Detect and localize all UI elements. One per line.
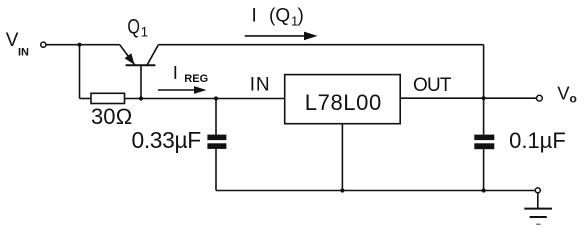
label C1 value 0.33uF: [132, 127, 202, 153]
svg-text:IN: IN: [18, 46, 29, 58]
svg-text:o: o: [570, 91, 577, 105]
wire Q1 collector top rail: [158, 44, 483, 46]
svg-text:): ): [298, 6, 304, 27]
wire capacitor C2 to ground rail: [483, 149, 485, 190]
svg-text:V: V: [557, 82, 570, 103]
label current I(Q1): [252, 6, 304, 29]
ground: [524, 209, 552, 225]
svg-text:Q: Q: [127, 15, 140, 38]
wire to resistor R1: [80, 98, 92, 100]
node F junction dot: [482, 188, 486, 192]
node Vo terminal: [537, 95, 543, 101]
wire Q1 base down to node B: [140, 65, 142, 98]
label Vo: [557, 82, 577, 105]
svg-text:0.33µF: 0.33µF: [132, 127, 202, 153]
svg-text:30Ω: 30Ω: [91, 104, 132, 129]
wire ground rail: [216, 190, 535, 192]
capacitor C1 plates: [207, 135, 226, 149]
svg-text:L78L00: L78L00: [305, 90, 382, 115]
node B junction dot: [139, 96, 143, 100]
resistor R1 body: [91, 93, 125, 103]
svg-text:0.1µF: 0.1µF: [509, 128, 566, 153]
wire node C down to capacitor C1: [215, 99, 217, 135]
wire node A down: [79, 45, 81, 99]
svg-text:REG: REG: [184, 73, 208, 85]
node ground terminal: [535, 188, 540, 193]
label OUT pin: [413, 75, 452, 96]
node D junction dot: [482, 96, 486, 100]
label current I REG: [173, 62, 208, 85]
label IN pin: [250, 74, 271, 95]
svg-text:I: I: [173, 62, 178, 83]
capacitor C2 plates: [474, 135, 494, 150]
wire node D down to capacitor C2: [483, 98, 485, 134]
node E junction dot: [340, 188, 344, 192]
wire U1 OUT to node D and Vo: [400, 97, 536, 99]
label C2 value 0.1uF: [509, 128, 566, 153]
regulator U1 L78L00: [285, 75, 401, 124]
label R1 value 30 ohm: [91, 104, 132, 129]
wire capacitor C1 to ground rail: [215, 149, 217, 191]
svg-text:I: I: [252, 6, 257, 27]
label U1 L78L00: [305, 90, 382, 115]
wire resistor R1 to regulator IN: [125, 98, 285, 100]
label Q1: [127, 15, 148, 39]
wire U1 ground pin: [341, 124, 343, 191]
svg-text:OUT: OUT: [413, 75, 452, 96]
svg-text:(Q: (Q: [269, 6, 290, 27]
node Vin terminal: [41, 42, 46, 47]
transistor Q1: [120, 45, 159, 65]
svg-text:V: V: [6, 30, 19, 51]
arrow I REG: [158, 86, 207, 94]
svg-text:IN: IN: [250, 74, 271, 95]
arrow I(Q1): [245, 32, 318, 41]
label Vin: [6, 30, 29, 58]
svg-text:1: 1: [141, 25, 149, 40]
node C junction dot: [214, 96, 218, 100]
wire Vin to node A: [46, 44, 120, 46]
node A junction dot: [77, 43, 81, 47]
wire top rail down to node D: [483, 45, 485, 98]
wire terminal to ground: [537, 193, 539, 209]
